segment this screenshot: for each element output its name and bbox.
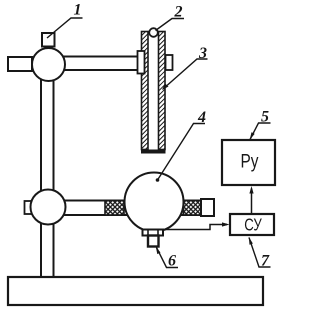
leader line label 4 [158, 124, 206, 181]
leader line label 7 [249, 238, 271, 268]
lower clamp left stub [25, 201, 32, 214]
svg-text:1: 1 [74, 2, 82, 19]
rod head circle 2 [149, 28, 158, 37]
arrowhead leader 7 [249, 237, 253, 245]
svg-text:5: 5 [261, 109, 269, 126]
svg-text:4: 4 [197, 109, 206, 126]
arrowhead leader 5 [250, 132, 255, 140]
arrow from SU to RU [251, 189, 253, 215]
leader line label 2 [156, 19, 185, 31]
tube right wall (hatched) [159, 32, 166, 150]
clamp holder circle 1 [32, 48, 65, 81]
flask sphere 4 [125, 173, 184, 232]
stand rod (vertical) [41, 60, 54, 277]
horizontal bar (lower) [48, 201, 202, 216]
crosshatch grip right [184, 201, 202, 216]
left stub (top clamp) [8, 57, 32, 71]
svg-text:Ру: Ру [241, 152, 259, 173]
svg-text:СУ: СУ [244, 215, 262, 235]
base plate [8, 277, 263, 305]
sensor body 6 [148, 236, 159, 247]
arrowhead up [249, 186, 253, 194]
horizontal bar (top) [48, 57, 138, 71]
svg-text:2: 2 [174, 4, 183, 21]
leader 4 end dot [156, 178, 160, 182]
tube left wall (hatched) [142, 32, 149, 150]
leader line label 5 [250, 123, 271, 140]
sensor fitting 6 flange [143, 230, 164, 236]
arrowhead leader 6 [156, 247, 161, 254]
bar end block (right) [201, 199, 214, 216]
clamp top square [42, 33, 55, 47]
clamp holder circle (lower) [31, 190, 66, 225]
leader line label 3 [163, 59, 208, 89]
fitting neck lines [148, 230, 158, 236]
svg-text:3: 3 [198, 45, 207, 62]
control unit box SU [230, 214, 274, 235]
svg-text:7: 7 [261, 253, 270, 270]
arrowhead into SU box [222, 222, 230, 226]
crosshatch grip left [105, 201, 124, 216]
leader line label 1 [47, 18, 83, 38]
arrowhead leader 3 [162, 84, 169, 91]
wire from sensor to control unit [163, 225, 227, 230]
leader line label 6 [157, 248, 179, 268]
tube closed bottom [141, 150, 166, 154]
right block at tube [166, 55, 173, 70]
recorder box RU 5 [222, 140, 275, 185]
left block at tube [138, 51, 145, 74]
svg-text:6: 6 [168, 253, 176, 270]
